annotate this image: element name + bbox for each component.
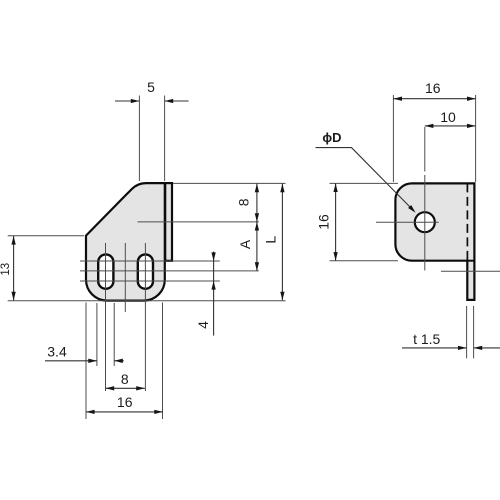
svg-text:8: 8	[235, 198, 251, 206]
dimension 10 arrows	[425, 124, 434, 128]
hole vertical center line	[424, 127, 426, 172]
hole	[415, 212, 435, 232]
svg-text:16: 16	[316, 214, 332, 230]
slot mid line	[80, 270, 259, 272]
dimension 5 extension lines	[138, 96, 140, 182]
slot arc center line bottom	[80, 280, 220, 282]
part center line	[124, 243, 126, 312]
dimension 16 top arrows	[393, 97, 402, 101]
dimension 16 left arrows	[333, 183, 337, 192]
svg-text:t 1.5: t 1.5	[413, 331, 440, 347]
hole horizontal center line	[376, 221, 439, 223]
dimension 4 line	[213, 252, 215, 336]
slot 2	[138, 254, 153, 288]
svg-text:16: 16	[117, 394, 133, 410]
dimension 8 bottom arrows	[106, 386, 115, 390]
slot edge extension right	[113, 303, 115, 366]
dimension 3.4 arrows	[88, 359, 97, 363]
slot arc center line top	[80, 260, 220, 262]
dimension 10 line	[425, 125, 476, 127]
dimension 8 right line	[256, 184, 258, 222]
dimension 16 top line	[393, 98, 475, 100]
slot 2 center line	[144, 243, 146, 391]
dimension 16 bottom arrows	[86, 410, 95, 414]
side view outline	[395, 183, 474, 300]
dimension 13 arrows	[11, 236, 15, 245]
top edge extension right	[173, 182, 286, 184]
dimension 8 right arrows	[255, 184, 259, 193]
dimension 8 bottom line	[106, 387, 145, 389]
dimension A arrows	[255, 222, 259, 231]
hole height reference line	[138, 221, 259, 223]
dimension t 1.5 extension lines	[466, 306, 468, 358]
svg-text:5: 5	[147, 79, 155, 95]
dimension 3.4 lines	[45, 360, 97, 362]
left edge extension down	[85, 303, 87, 420]
svg-text:16: 16	[425, 80, 441, 96]
right lower reference line	[441, 270, 500, 272]
side view bottom edge across leg	[466, 260, 474, 262]
slot 1 center line	[105, 243, 107, 391]
dimension 16 top extension lines	[392, 95, 394, 182]
dimension 4 arrows	[211, 252, 215, 261]
right edge extension down	[162, 303, 164, 420]
dimension 5 arrows	[131, 99, 140, 103]
dimension 16 bottom line	[86, 411, 163, 413]
dimension 13 line	[13, 236, 15, 300]
dimension 5 lines	[115, 100, 139, 102]
slot 1	[98, 254, 113, 288]
svg-text:4: 4	[195, 321, 211, 329]
svg-text:3.4: 3.4	[47, 343, 67, 359]
dimension t 1.5 lines	[402, 347, 467, 349]
dimension 13 extension line	[8, 235, 84, 237]
dimension 16 left extension lines	[330, 182, 399, 184]
dimension 16 left line	[335, 183, 337, 260]
svg-text:8: 8	[121, 371, 129, 387]
phi D leader line	[316, 148, 415, 212]
dimension A line	[256, 222, 258, 271]
front view face outline	[86, 183, 165, 301]
dimension L line	[281, 184, 283, 301]
dimension t 1.5 arrows	[458, 346, 467, 350]
slot edge extension left	[96, 303, 98, 366]
dimension L arrows	[280, 184, 284, 193]
front view flange strip	[165, 183, 172, 261]
svg-text:13: 13	[0, 263, 12, 276]
bend hidden dashed line	[466, 183, 468, 260]
phi D leader arrow	[408, 205, 416, 213]
svg-text:ϕD: ϕD	[322, 130, 341, 145]
bottom edge extension line	[8, 300, 286, 302]
svg-text:L: L	[263, 236, 279, 244]
svg-text:10: 10	[440, 109, 456, 125]
svg-text:A: A	[237, 239, 253, 249]
